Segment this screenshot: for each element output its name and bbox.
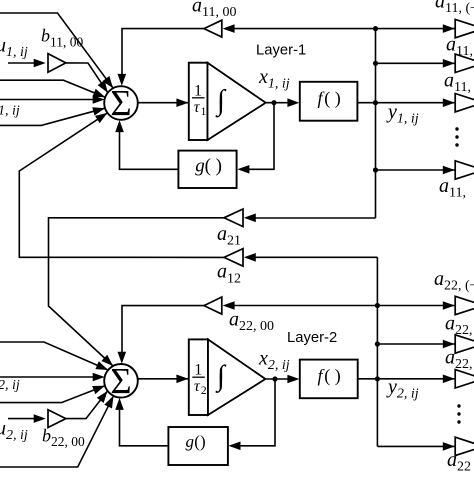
svg-text:Layer-1: Layer-1 <box>256 43 306 59</box>
svg-text:(): () <box>194 432 205 451</box>
svg-text:1: 1 <box>194 362 202 379</box>
svg-text:g: g <box>186 432 195 451</box>
svg-text:g: g <box>195 156 205 177</box>
svg-text:1, ij: 1, ij <box>0 104 20 119</box>
svg-text:( ): ( ) <box>205 156 222 177</box>
svg-text:Σ: Σ <box>110 360 131 401</box>
svg-text:( ): ( ) <box>324 88 341 109</box>
svg-text:2: 2 <box>201 385 207 397</box>
svg-text:1: 1 <box>201 106 207 118</box>
svg-text:( ): ( ) <box>324 366 341 387</box>
svg-text:2, ij: 2, ij <box>0 378 20 393</box>
svg-text:Σ: Σ <box>110 83 131 124</box>
svg-text:1: 1 <box>194 82 202 99</box>
svg-text:Layer-2: Layer-2 <box>287 330 337 346</box>
